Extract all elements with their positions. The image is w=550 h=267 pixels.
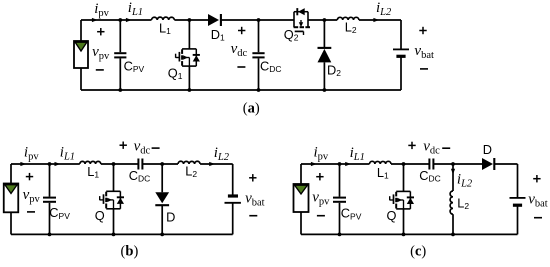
svg-text:(a): (a) (243, 100, 260, 116)
svg-text:Q: Q (387, 208, 397, 223)
svg-text:D: D (483, 142, 492, 157)
svg-text:Q: Q (95, 208, 105, 223)
svg-text:D: D (166, 209, 175, 224)
svg-text:(b): (b) (121, 243, 139, 259)
svg-text:(c): (c) (410, 243, 426, 259)
